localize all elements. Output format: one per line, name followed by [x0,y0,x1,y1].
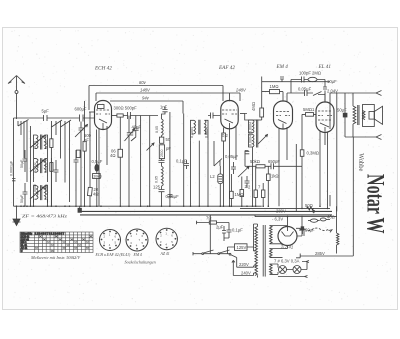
svg-text:AZ 41: AZ 41 [160,252,170,256]
svg-text:0,002: 0,002 [45,163,49,172]
svg-text:50µF: 50µF [20,159,24,168]
svg-text:Sockelschaltungen: Sockelschaltungen [125,260,156,265]
svg-text:EL 41: EL 41 [318,63,332,70]
svg-text:0,0004: 0,0004 [249,135,253,146]
svg-text:4Ω: 4Ω [110,153,115,158]
svg-text:285V: 285V [315,251,325,256]
svg-text:U: U [21,250,23,253]
svg-text:50kΩ: 50kΩ [250,159,260,164]
svg-text:0,3MΩ: 0,3MΩ [307,151,319,156]
svg-text:ECH u.EAF 42 (EL41): ECH u.EAF 42 (EL41) [95,253,132,257]
svg-text:2µF: 2µF [216,225,224,230]
svg-text:Wobbe: Wobbe [357,153,365,171]
svg-text:- 6,3V: - 6,3V [272,216,283,221]
svg-text:0,2: 0,2 [222,133,228,138]
svg-text:pF: pF [166,146,171,151]
svg-text:ZF = 468/473 kHz: ZF = 468/473 kHz [22,213,67,218]
svg-text:0,002: 0,002 [33,163,37,172]
svg-text:0,5µF: 0,5µF [92,159,103,164]
svg-text:220V: 220V [239,262,249,267]
svg-text:0,05: 0,05 [33,141,37,148]
svg-text:0,05: 0,05 [155,126,159,133]
svg-text:Notar W: Notar W [362,174,389,234]
svg-text:0,1µF: 0,1µF [232,228,243,233]
svg-text:80v: 80v [139,80,147,85]
svg-text:EM 4: EM 4 [133,253,142,257]
svg-text:125: 125 [153,185,161,190]
svg-text:0,0004: 0,0004 [205,127,209,138]
svg-text:50Ω: 50Ω [305,203,313,208]
svg-text:2500: 2500 [160,149,164,157]
svg-text:5µF: 5µF [42,109,50,114]
svg-text:240V: 240V [241,271,251,276]
svg-text:0,05µF: 0,05µF [166,194,180,199]
svg-text:248V: 248V [235,87,247,92]
svg-text:280V: 280V [276,209,286,214]
svg-text:A Z 41: A Z 41 [280,245,293,250]
svg-text:0,0002: 0,0002 [45,184,49,195]
svg-text:0,0001µF: 0,0001µF [10,160,14,176]
svg-text:50µF: 50µF [20,194,24,203]
svg-text:L2: L2 [210,174,215,179]
svg-text:125V: 125V [237,245,247,250]
svg-text:1kΩ: 1kΩ [271,174,279,179]
svg-text:100pF 2MΩ: 100pF 2MΩ [299,71,321,76]
svg-text:EAF 42: EAF 42 [218,64,235,71]
svg-text:50µF: 50µF [305,228,315,233]
svg-text:7Ω: 7Ω [206,216,211,221]
svg-text:300Ω 500pF: 300Ω 500pF [114,106,138,111]
svg-text:10µF: 10µF [327,79,337,84]
svg-text:50µF: 50µF [337,108,347,113]
svg-text:5MΩ1: 5MΩ1 [303,107,315,112]
svg-text:50: 50 [166,137,171,142]
svg-text:pF: pF [84,138,89,143]
svg-text:40Ω: 40Ω [327,214,335,219]
svg-text:1MΩ: 1MΩ [235,192,244,197]
svg-text:1nF: 1nF [160,105,168,110]
svg-text:0,0004: 0,0004 [249,122,253,133]
svg-text:0,0004: 0,0004 [190,127,194,138]
svg-text:600µF: 600µF [75,107,87,112]
svg-text:ECH 42: ECH 42 [94,65,112,72]
svg-text:EM 4: EM 4 [276,63,289,70]
svg-text:4Ω: 4Ω [93,192,98,197]
svg-text:1 2 3 4 5 6 7 8 1 2 3 4 5 6 7: 1 2 3 4 5 6 7 8 1 2 3 4 5 6 7 [35,233,65,236]
svg-text:94v: 94v [142,95,150,100]
svg-text:0,05µF: 0,05µF [298,87,312,92]
svg-text:0,1µF: 0,1µF [176,159,187,164]
svg-text:0,0002: 0,0002 [33,184,37,195]
svg-text:148V: 148V [140,87,151,92]
svg-text:0,05µF: 0,05µF [225,154,239,159]
svg-text:2,04V: 2,04V [327,89,338,94]
svg-text:4MΩ: 4MΩ [251,102,256,111]
svg-text:0,05: 0,05 [45,141,49,148]
svg-text:0,05: 0,05 [155,176,159,183]
svg-text:40pF: 40pF [132,124,142,129]
svg-text:Meßwerte mit Instr. 500Ω/V: Meßwerte mit Instr. 500Ω/V [30,255,81,260]
svg-text:1MΩ: 1MΩ [270,84,279,89]
svg-text:30kΩ: 30kΩ [93,175,102,179]
svg-text:650pF: 650pF [268,159,280,164]
svg-text:7 # 6,3V 0,3A: 7 # 6,3V 0,3A [274,259,300,264]
